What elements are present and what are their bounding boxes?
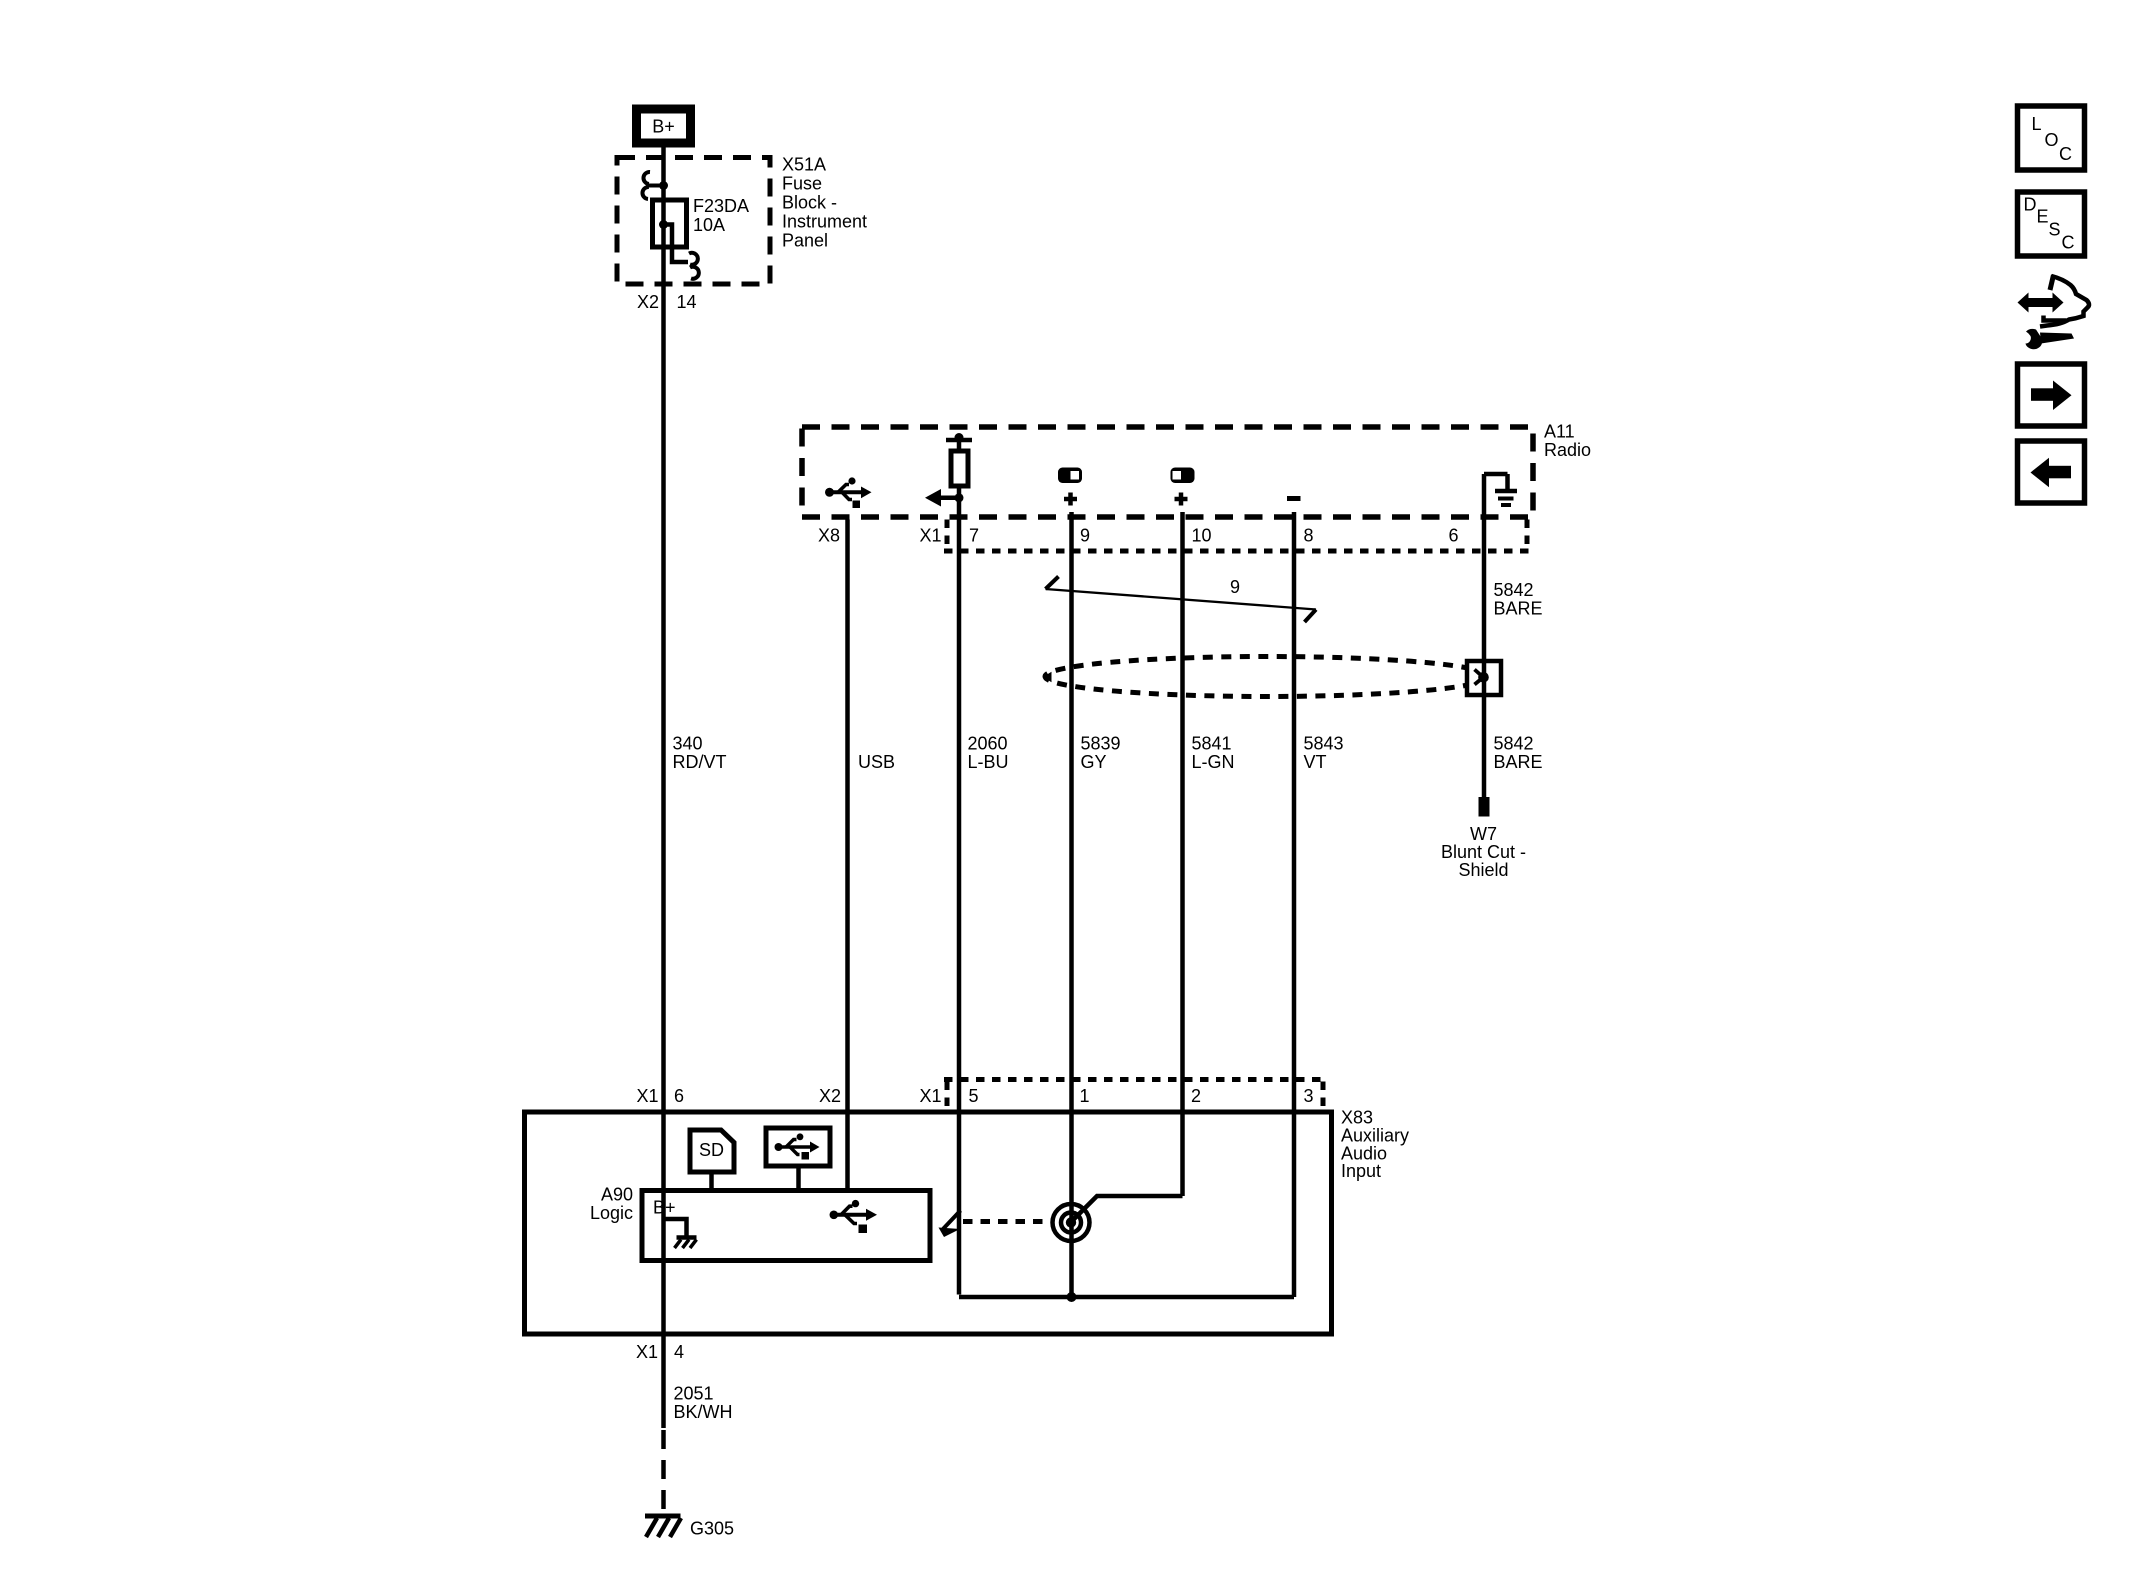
svg-text:2051: 2051: [674, 1384, 714, 1404]
svg-text:X83: X83: [1341, 1108, 1373, 1128]
svg-text:6: 6: [674, 1086, 684, 1106]
svg-text:Instrument: Instrument: [782, 212, 867, 232]
svg-text:F23DA: F23DA: [693, 196, 749, 216]
svg-text:X1: X1: [636, 1086, 658, 1106]
svg-text:9: 9: [1230, 577, 1240, 597]
svg-text:X2: X2: [637, 292, 659, 312]
svg-text:BK/WH: BK/WH: [674, 1402, 733, 1422]
svg-text:Auxiliary: Auxiliary: [1341, 1126, 1409, 1146]
svg-text:O: O: [2045, 130, 2059, 150]
svg-text:14: 14: [677, 292, 697, 312]
svg-text:7: 7: [969, 526, 979, 546]
svg-text:GY: GY: [1081, 752, 1107, 772]
svg-text:RD/VT: RD/VT: [673, 752, 727, 772]
svg-text:340: 340: [673, 734, 703, 754]
svg-text:X1: X1: [919, 1086, 941, 1106]
svg-text:SD: SD: [699, 1140, 724, 1160]
svg-text:X8: X8: [818, 526, 840, 546]
svg-text:2060: 2060: [968, 734, 1008, 754]
svg-text:B+: B+: [653, 1198, 676, 1218]
svg-text:X1: X1: [919, 526, 941, 546]
svg-text:C: C: [2062, 233, 2075, 253]
svg-text:W7: W7: [1470, 824, 1497, 844]
svg-text:Fuse: Fuse: [782, 174, 822, 194]
svg-text:L-GN: L-GN: [1192, 752, 1235, 772]
svg-text:C: C: [2059, 144, 2072, 164]
svg-text:B+: B+: [652, 117, 675, 137]
svg-text:4: 4: [674, 1342, 684, 1362]
svg-text:E: E: [2037, 207, 2049, 227]
svg-text:Shield: Shield: [1458, 860, 1508, 880]
svg-text:Block -: Block -: [782, 193, 837, 213]
svg-text:8: 8: [1304, 526, 1314, 546]
svg-text:2: 2: [1191, 1086, 1201, 1106]
svg-text:5839: 5839: [1081, 734, 1121, 754]
svg-text:Blunt Cut -: Blunt Cut -: [1441, 842, 1526, 862]
svg-text:Panel: Panel: [782, 231, 828, 251]
svg-text:9: 9: [1080, 526, 1090, 546]
svg-text:D: D: [2024, 195, 2037, 215]
svg-text:S: S: [2049, 220, 2061, 240]
svg-text:X51A: X51A: [782, 155, 826, 175]
svg-text:1: 1: [1080, 1086, 1090, 1106]
svg-text:X2: X2: [819, 1086, 841, 1106]
svg-text:BARE: BARE: [1494, 752, 1543, 772]
svg-text:5843: 5843: [1304, 734, 1344, 754]
svg-text:L: L: [2032, 114, 2042, 134]
svg-text:A90: A90: [601, 1185, 633, 1205]
svg-text:5842: 5842: [1494, 734, 1534, 754]
svg-text:5842: 5842: [1494, 580, 1534, 600]
svg-text:USB: USB: [858, 752, 895, 772]
svg-text:5: 5: [969, 1086, 979, 1106]
svg-text:A11: A11: [1544, 422, 1575, 442]
svg-text:10A: 10A: [693, 215, 725, 235]
svg-text:10: 10: [1192, 526, 1212, 546]
svg-text:6: 6: [1449, 526, 1459, 546]
svg-text:5841: 5841: [1192, 734, 1232, 754]
svg-text:X1: X1: [636, 1342, 658, 1362]
svg-text:Input: Input: [1341, 1161, 1381, 1181]
svg-text:VT: VT: [1304, 752, 1327, 772]
svg-text:BARE: BARE: [1494, 599, 1543, 619]
svg-text:G305: G305: [690, 1519, 734, 1539]
svg-text:Radio: Radio: [1544, 440, 1591, 460]
svg-text:3: 3: [1304, 1086, 1314, 1106]
svg-text:Logic: Logic: [590, 1203, 633, 1223]
svg-text:L-BU: L-BU: [968, 752, 1009, 772]
